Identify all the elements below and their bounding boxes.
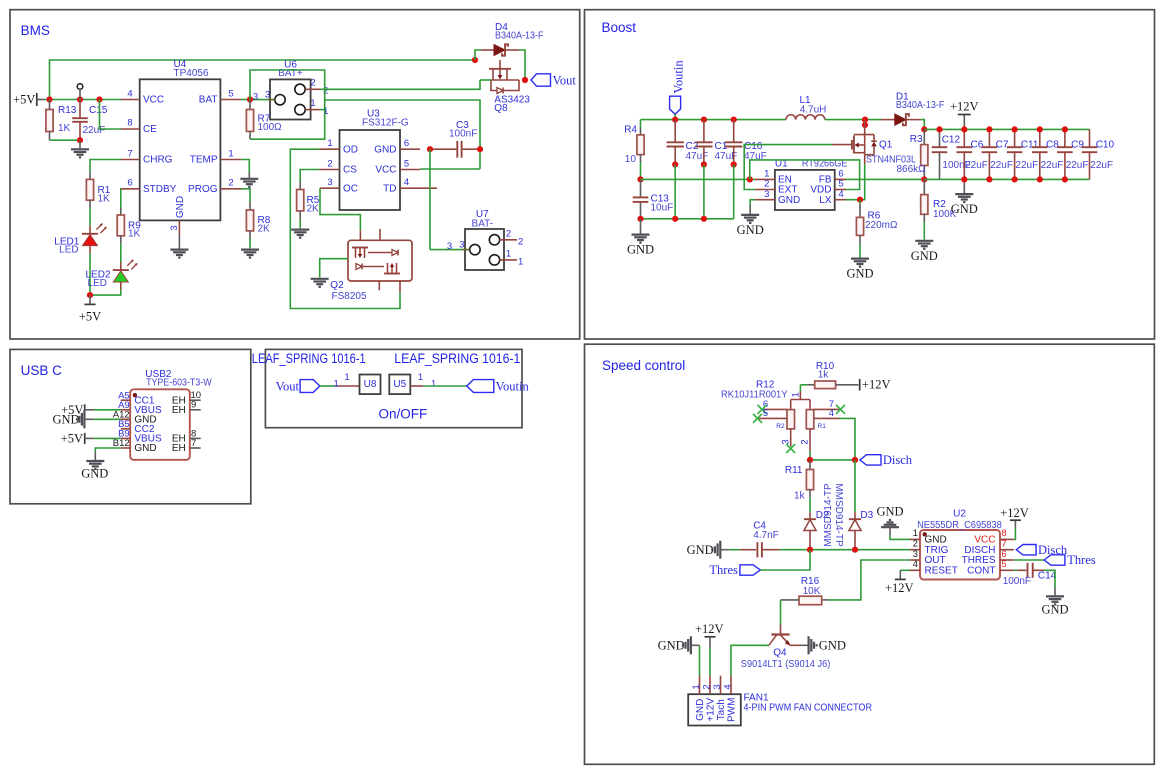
svg-text:+5V: +5V [61,432,83,446]
svg-text:C10: C10 [1096,140,1115,151]
svg-text:10: 10 [625,154,637,165]
svg-text:1: 1 [327,138,332,149]
svg-text:Q2: Q2 [330,280,344,291]
svg-text:FS8205: FS8205 [332,291,367,302]
pin 5 BAT [199,88,241,105]
svg-text:OD: OD [343,144,358,155]
junction [427,146,433,152]
section frame Boost [585,10,1155,339]
svg-text:4: 4 [913,559,918,570]
junction [46,96,52,102]
svg-text:3: 3 [712,684,723,689]
svg-text:GND: GND [876,504,903,518]
svg-text:2K: 2K [307,203,320,214]
pin B9 VBUS [118,429,162,445]
svg-text:Voutin: Voutin [672,60,686,94]
svg-text:1K: 1K [128,229,141,240]
wire ground bus [641,218,734,220]
svg-text:U2: U2 [953,508,966,519]
no-connect X [753,414,762,423]
svg-text:2: 2 [228,178,233,189]
svg-text:3: 3 [265,90,270,101]
wire B12 to ground [95,448,121,452]
pin 9 EH [172,400,201,416]
section frame USB C [10,349,251,503]
junction [672,117,678,123]
section frame LEAF_SPRING [265,349,522,427]
svg-text:U5: U5 [393,379,406,390]
pin 4 LX [819,189,846,206]
IC U3 FS312F-G [340,108,409,210]
svg-text:1k: 1k [794,490,806,501]
pin A9 VBUS [118,400,162,416]
svg-text:GND: GND [911,249,938,263]
junction [936,126,942,132]
svg-text:1K: 1K [98,193,111,204]
pin 8 VCC [974,528,1014,545]
switch U8 [360,375,381,395]
resistor R13 [46,100,77,141]
svg-text:GND: GND [778,195,800,206]
svg-text:+12V: +12V [1000,506,1029,520]
power +5V (A9) [61,403,121,417]
diode D2 MMSD914-TP [804,483,834,550]
svg-text:TYPE-603-T3-W: TYPE-603-T3-W [146,378,212,389]
junction [807,457,813,463]
svg-text:4.7uH: 4.7uH [800,105,827,116]
title LEAF_SPRING 1016-1 (left) [252,351,366,366]
junction [921,126,927,132]
wire CHRG to R1 [90,160,121,173]
resistor R3 [897,129,928,179]
svg-text:5: 5 [404,158,409,169]
pin 6 R12 [762,399,787,410]
connector U6 BAT+ [270,60,311,120]
svg-text:22uF: 22uF [1015,160,1038,171]
svg-text:4: 4 [404,177,409,188]
svg-text:GND: GND [53,413,80,427]
junction [747,176,753,182]
svg-text:+12V: +12V [705,698,716,722]
wire BAT [241,99,250,101]
wire THRES [1014,559,1044,561]
svg-text:Q8: Q8 [494,103,508,114]
junction [87,292,93,298]
svg-text:4: 4 [829,408,834,419]
svg-text:MMSD914-TP: MMSD914-TP [823,483,834,547]
pin 3 GND of U4 [169,196,186,235]
junction [1037,126,1043,132]
wire +12V rail [924,128,1089,130]
wire Q8 source left [480,79,491,81]
ground (R5) [291,219,309,238]
svg-text:2: 2 [701,684,712,689]
power +12V (FAN pin2) [695,622,724,676]
junction [852,457,858,463]
svg-text:1: 1 [691,684,702,689]
pin 2 EXT [755,179,797,196]
svg-text:100nF: 100nF [449,129,477,140]
pin 1 EN [755,169,792,186]
pin 2 R12 [800,429,811,451]
svg-text:Speed control: Speed control [602,358,685,373]
pin 5 VCC of U3 [375,158,420,175]
wire R16 to Q4 [780,600,782,625]
diode D4 B340A-13-F [475,22,544,60]
capacitor C2 [667,120,709,165]
svg-text:1: 1 [518,256,523,267]
svg-text:On/OFF: On/OFF [379,406,428,421]
svg-text:1: 1 [334,379,339,390]
svg-text:Q1: Q1 [879,140,893,151]
title BMS [21,23,50,38]
svg-text:Thres: Thres [709,563,738,577]
LED1 [54,224,106,256]
pin 1 U7 [500,249,524,268]
svg-text:1: 1 [506,249,511,260]
wire B- loop to C3 [325,100,480,169]
capacitor C16 [725,120,767,165]
junction [637,176,643,182]
svg-text:FS312F-G: FS312F-G [362,118,409,129]
svg-text:LEAF_SPRING 1016-1: LEAF_SPRING 1016-1 [252,351,366,366]
wire R9 to LED2 [120,244,122,262]
svg-text:RESET: RESET [925,566,958,577]
wire top loop to D4 [50,60,476,100]
svg-text:6: 6 [127,178,132,189]
svg-text:5: 5 [763,408,768,419]
ground (under C15) [71,140,89,157]
wire Voutin stub [674,114,676,119]
svg-text:7: 7 [191,438,196,449]
junction [731,117,737,123]
resistor R8 [246,202,270,239]
svg-text:MMSD914-TP: MMSD914-TP [833,483,844,547]
svg-text:C9: C9 [1071,140,1084,151]
svg-text:2K: 2K [258,223,271,234]
svg-text:U8: U8 [364,379,377,390]
junction [96,96,102,102]
power +5V (B9) [61,432,121,446]
inductor L1 [786,95,826,120]
svg-text:2: 2 [518,236,523,247]
svg-text:BAT: BAT [199,95,218,106]
ground (C4 side) [687,541,730,559]
junction [807,547,813,553]
junction [672,216,678,222]
svg-text:100nF: 100nF [1003,576,1031,587]
wire U6 loop [250,70,325,139]
pin 2 U7 [500,228,524,247]
svg-text:LED: LED [88,278,107,289]
svg-text:6: 6 [404,138,409,149]
capacitor C15 [72,84,108,141]
svg-text:+12V: +12V [695,622,724,636]
svg-text:3: 3 [459,239,464,250]
svg-text:Q4: Q4 [773,648,787,659]
svg-text:GND: GND [737,223,764,237]
svg-text:VCC: VCC [375,165,396,176]
global label Vout (switch) [276,379,320,393]
pin B12 GND [113,438,157,454]
capacitor C4 [729,520,779,557]
pin 3 U7 [430,239,470,252]
svg-text:Voutin: Voutin [496,379,530,393]
pin 1 TEMP [190,148,241,165]
capacitor C10 [1082,129,1115,179]
svg-text:USB C: USB C [21,363,63,378]
pin 5 R12 [758,408,788,419]
pin 2 U6 [305,78,328,97]
svg-text:5: 5 [1001,559,1006,570]
svg-text:100Ω: 100Ω [258,122,283,133]
svg-text:GND: GND [374,144,396,155]
junction [477,146,483,152]
LED2 [85,260,137,290]
wire R13 to C15 bottom [50,139,81,141]
svg-text:C7: C7 [996,140,1009,151]
junction [1037,176,1043,182]
svg-text:TEMP: TEMP [190,155,218,166]
pin 1 GND [910,528,947,545]
global label Voutin (vertical) [670,60,686,115]
wire Thres to TRIG node [760,550,810,570]
ground (R2) [911,222,938,262]
junction [921,176,927,182]
wire C1 down [703,165,705,219]
svg-text:4: 4 [127,88,132,99]
svg-text:CS: CS [343,165,357,176]
svg-text:LX: LX [819,195,832,206]
ground (U1) [737,206,764,238]
pin 1 U8 [334,372,360,390]
pin 6 THRES [962,549,1014,566]
wire Q1 source to LX [846,164,865,199]
pin 6 FB [819,169,846,186]
capacitor C6 [957,129,988,179]
svg-text:OC: OC [343,183,358,194]
ground (U2 pin1, inverted) [876,504,910,539]
junction [77,96,83,102]
pin 8 EH [172,428,201,444]
wire OD loop to Q2 [290,149,400,308]
wire LED2 to +5V node [90,290,121,296]
svg-text:7: 7 [127,148,132,159]
svg-text:5: 5 [228,88,233,99]
capacitor C14 [1003,563,1057,587]
svg-text:1: 1 [791,392,802,397]
mosfet Q2 FS8205 [330,229,412,302]
diode D1 B340A-13-F [881,92,944,126]
svg-text:Vout: Vout [276,379,300,393]
power +12V (RESET) [885,570,914,595]
no-connect X [836,405,845,414]
resistor R4 [624,120,644,180]
pin 7 CHRG [121,148,173,165]
global label Disch (upper) [860,453,913,467]
svg-text:+12V: +12V [862,378,891,392]
svg-text:GND: GND [134,443,156,454]
wire cap ground bus [924,178,1089,180]
wire FB net [846,178,924,180]
svg-text:4: 4 [838,189,843,200]
wire pin2 down [809,451,811,460]
junction [857,197,863,203]
svg-text:10uF: 10uF [651,203,674,214]
svg-text:EH: EH [172,405,186,416]
svg-text:Vout: Vout [553,74,577,88]
connector FAN1 [688,676,872,726]
svg-text:C12: C12 [942,135,961,146]
ground (R8) [241,239,259,258]
pin 2 TRIG [910,539,949,556]
capacitor C12 [932,129,971,179]
wire LED1 to +5V node [89,254,91,296]
svg-text:3: 3 [447,241,452,252]
transistor Q1 STN4NF03L [832,120,916,166]
svg-text:22uF: 22uF [1090,160,1113,171]
global label Thres (pin6) [1044,553,1096,567]
svg-text:22uF: 22uF [1066,160,1089,171]
pin 7 EH [172,438,201,454]
svg-text:BMS: BMS [21,23,50,38]
diode D3 MMSD914-TP [833,460,874,550]
svg-text:GND: GND [687,543,714,557]
junction [701,117,707,123]
svg-text:C8: C8 [1046,140,1059,151]
wire PROG to R8 [241,189,250,202]
pin 4 VCC [121,88,164,105]
wire +5V rail [45,99,122,101]
trimmer R12 RK10J11R001Y [721,380,826,430]
title LEAF_SPRING 1016-1 (right) [394,351,520,366]
IC U4 TP4056 [140,59,221,220]
wire U5 to Voutin [423,385,467,387]
ground (C14) [1041,570,1068,616]
pin A12 GND [113,410,157,426]
svg-text:Boost: Boost [602,20,637,35]
global label Vout [531,74,576,88]
svg-text:2: 2 [327,158,332,169]
junction [637,216,643,222]
wire pin4 to Disch node [839,418,855,460]
power +12V (pin8) [1000,506,1029,540]
svg-text:+12V: +12V [950,100,979,114]
svg-text:4: 4 [722,684,733,689]
svg-text:1: 1 [344,372,349,383]
svg-text:C15: C15 [89,105,108,116]
junction [672,161,678,167]
capacitor C7 [982,129,1013,179]
svg-text:B340A-13-F: B340A-13-F [896,100,945,111]
svg-text:R2: R2 [776,423,785,430]
svg-text:22uF: 22uF [1041,160,1064,171]
svg-text:R1: R1 [818,423,827,430]
junction [961,126,967,132]
resistor R16 [781,576,830,605]
svg-text:1: 1 [228,148,233,159]
svg-text:GND: GND [175,196,186,218]
svg-text:9: 9 [191,400,196,411]
junction [986,126,992,132]
svg-text:TP4056: TP4056 [174,68,209,79]
resistor R5 [297,182,320,219]
svg-text:B340A-13-F: B340A-13-F [495,31,544,42]
pin 5 VDD [810,179,846,196]
wire U6 pin2 to Q8 source [320,80,480,89]
ground (Q4 emitter) [799,636,846,654]
wire input rail [641,119,787,121]
svg-text:866kΩ: 866kΩ [897,164,927,175]
IC U2 NE555DR [917,508,1002,579]
svg-text:22uF: 22uF [990,160,1013,171]
connector U7 BAT- [465,209,504,270]
svg-text:47uF: 47uF [686,151,709,162]
wire CE [100,100,122,130]
wire GND pin to ground [750,200,755,206]
svg-text:2: 2 [800,439,811,444]
pin 3 OC [320,177,358,194]
global label Thres (left) [709,563,760,577]
pin 7 R12 [814,399,841,410]
pin 3 R12 [780,429,791,447]
svg-text:GND: GND [819,639,846,653]
power +5V (bottom) [79,295,101,323]
junction [1062,126,1068,132]
pin 6 STDBY [121,178,177,196]
title Boost [602,20,637,35]
svg-text:CONT: CONT [967,566,995,577]
svg-text:LEAF_SPRING 1016-1: LEAF_SPRING 1016-1 [394,351,520,366]
transistor Q4 S9014 [741,625,831,671]
switch U5 [389,375,410,395]
svg-text:1: 1 [431,379,436,390]
svg-text:2: 2 [310,78,315,89]
pin 4 R12 [814,408,839,419]
svg-text:4.7nF: 4.7nF [753,530,779,541]
pin B5 CC2 [118,419,155,435]
junction [1012,176,1018,182]
wire R11 to D2 [809,498,811,513]
global label Voutin (switch) [467,379,530,393]
junction [862,122,868,128]
global label Disch (pin7) [1016,543,1068,557]
pin 8 CE [121,118,157,136]
pin 3 OUT [910,549,946,566]
resistor R1 [86,172,110,208]
wire TEMP to ground [241,160,249,173]
wire C2 down [674,165,676,219]
wire EXT to Q1 gate [744,145,832,190]
pin 4 TD [383,177,437,194]
svg-text:R3: R3 [910,134,923,145]
wire VCC loop [420,168,480,170]
pin 3 GND [755,189,800,206]
svg-text:1: 1 [310,98,315,109]
power +5V (top-left) [13,93,44,107]
svg-text:3: 3 [327,177,332,188]
svg-text:BAT-: BAT- [472,218,493,229]
svg-text:+5V: +5V [13,93,35,107]
svg-text:Disch: Disch [883,453,913,467]
svg-text:1: 1 [418,372,423,383]
wire C16 down [733,165,735,219]
svg-text:22uF: 22uF [83,125,106,136]
wire U6 pin1 stub [320,109,325,111]
capacitor C8 [1032,129,1063,179]
pin 4 RESET [910,559,958,576]
junction [472,57,478,63]
